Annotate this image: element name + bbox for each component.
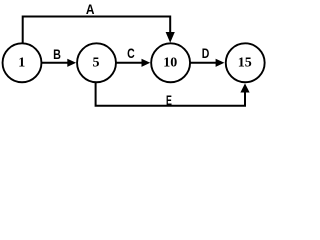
wire edge E elbow from node 5 bottom to node 15 bottom	[96, 82, 245, 105]
wire edge A elbow from node 1 top to node 10 top	[23, 17, 171, 44]
arrowhead edge A into node 10	[166, 32, 175, 43]
svg-text:E: E	[166, 92, 172, 108]
svg-text:D: D	[202, 45, 210, 61]
node 5 circle	[77, 43, 116, 82]
arrowhead edge E into node 15	[240, 83, 249, 92]
arrowhead edge C into node 10	[142, 59, 151, 67]
svg-text:B: B	[53, 46, 61, 62]
svg-text:1: 1	[18, 56, 25, 71]
svg-text:15: 15	[238, 56, 252, 71]
svg-text:A: A	[86, 1, 95, 17]
svg-text:5: 5	[93, 56, 100, 71]
svg-text:10: 10	[163, 56, 177, 71]
wire edge B from node 1 to node 5	[41, 62, 68, 64]
wire edge D from node 10 to node 15	[190, 62, 216, 64]
node 1 circle	[3, 43, 42, 82]
wire edge C from node 5 to node 10	[116, 62, 142, 64]
svg-text:C: C	[127, 45, 135, 61]
node 10 circle	[151, 43, 190, 82]
arrowhead edge D into node 15	[216, 59, 225, 67]
arrowhead edge B into node 5	[67, 59, 76, 67]
node 15 circle	[226, 43, 265, 82]
